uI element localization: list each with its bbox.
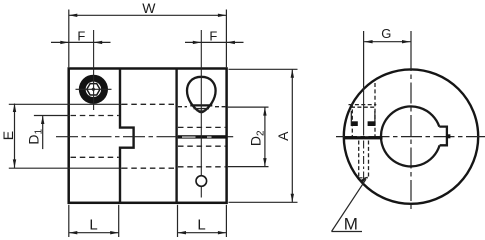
socket head cap screw outer disc: [79, 75, 108, 104]
screw hole hidden wall right: [368, 141, 370, 178]
F left arrow outer-left: [60, 41, 69, 44]
M leader line: [332, 179, 367, 231]
counterbore bottom hidden line 1: [349, 104, 377, 106]
M leader underline: [332, 231, 363, 233]
clamp screw axis inside circle: [363, 89, 365, 136]
right hub counterbore hidden line left segment: [178, 106, 187, 108]
screw head side left: [350, 111, 352, 126]
L right extension line inner: [177, 205, 179, 237]
svg-text:A: A: [275, 131, 291, 141]
A arrow top: [291, 69, 294, 78]
hub boss hidden line bottom (E) dashed part: [122, 167, 175, 169]
clamp slit front view: [344, 136, 382, 139]
teardrop chord (screw head): [190, 104, 212, 106]
M leader arrowhead: [359, 176, 368, 183]
svg-text:G: G: [381, 26, 391, 41]
W dimension line: [69, 14, 227, 16]
L left dimension line: [69, 232, 119, 234]
teardrop inner small line: [197, 110, 207, 112]
svg-text:L: L: [89, 216, 97, 233]
D2 extension line bottom: [228, 166, 269, 168]
vertical centerline right view: [410, 31, 412, 50]
teardrop inner line: [194, 108, 210, 110]
D2 arrow bottom: [263, 158, 266, 167]
screw hole bottom hidden dash: [359, 177, 368, 179]
L right arrow right: [218, 231, 227, 234]
screw hole hidden wall left: [358, 141, 360, 178]
screw hex socket: [87, 84, 100, 95]
F right dimension line: [185, 41, 244, 43]
W extension line right: [225, 10, 227, 68]
L left extension line outer: [68, 205, 70, 237]
F right arrow outer-left: [193, 41, 202, 44]
L left arrow right: [110, 231, 119, 234]
F left arrow outer-right: [94, 41, 103, 44]
L right extension line outer: [225, 205, 227, 237]
clamp slit side view: [178, 135, 227, 138]
svg-text:M: M: [344, 215, 358, 234]
main horizontal centerline: [56, 136, 227, 138]
D2 dimension line: [264, 107, 266, 167]
svg-text:F: F: [209, 28, 217, 43]
F right arrow outer-right: [226, 41, 235, 44]
right hub screw axis line: [200, 30, 202, 198]
horizontal centerline right view: [336, 136, 485, 138]
W arrow right: [218, 14, 227, 17]
counterbore wall hidden right: [374, 83, 376, 136]
bore D1 hidden line bottom: [71, 156, 119, 158]
clamp screw axis upper (G extension): [363, 31, 365, 89]
left hub right edge with jaw step: [120, 69, 134, 203]
screw vertical crosshair / F extension: [93, 30, 95, 110]
A dimension line: [291, 69, 293, 202]
svg-text:W: W: [142, 0, 156, 16]
L right dimension line: [178, 232, 227, 234]
clamp screw axis below slit: [363, 141, 365, 183]
screw socket white circle: [86, 82, 101, 97]
right hub inner hidden line lower: [178, 145, 225, 147]
screw head black right: [368, 121, 375, 126]
wrench access hole: [196, 176, 207, 187]
G arrow right: [402, 40, 411, 43]
right hub left edge: [175, 69, 177, 203]
D1 arrow up: [41, 116, 44, 125]
A extension line bottom: [229, 201, 298, 203]
screw center diamond: [91, 87, 95, 91]
D1 dimension line: [42, 116, 44, 149]
screw head black left: [352, 121, 358, 126]
E arrow top: [13, 104, 16, 113]
D1 extension line: [34, 115, 70, 117]
bore notch outline: [439, 127, 447, 146]
W arrow left: [69, 14, 78, 17]
bore D1 hidden line top: [71, 115, 119, 117]
A arrow bottom: [291, 194, 294, 203]
hub boss hidden line top (E) solid part: [9, 103, 122, 105]
right hub inner hidden line upper: [178, 126, 225, 128]
D2 arrow top: [263, 107, 266, 116]
L right arrow left: [178, 231, 187, 234]
G dimension line: [364, 41, 410, 43]
right hub bore D2 hidden line bottom: [178, 166, 225, 168]
E arrow bottom: [13, 159, 16, 168]
outer circle: [344, 69, 478, 203]
bore circle with notch gap: [381, 106, 440, 166]
slit white dash 2: [207, 137, 212, 138]
G arrow left: [364, 40, 373, 43]
screw horizontal crosshair: [76, 88, 112, 90]
E dimension line: [14, 104, 16, 168]
A extension line top: [229, 68, 298, 70]
D2 extension line top: [228, 106, 269, 108]
L left arrow left: [69, 231, 78, 234]
bore notch black tab: [446, 134, 450, 138]
coupling body outline: [69, 69, 227, 203]
L left extension line inner: [118, 205, 120, 237]
slit white dash 1: [182, 137, 196, 138]
screw head side right: [374, 111, 376, 126]
hub boss hidden line bottom (E) solid part: [9, 167, 122, 169]
counterbore wall hidden left: [351, 103, 353, 136]
clamp screw counterbore teardrop: [187, 77, 216, 112]
svg-text:L: L: [197, 216, 205, 233]
hub boss hidden line top (E) dashed part: [122, 103, 175, 105]
svg-text:F: F: [77, 28, 85, 43]
W extension line left: [68, 10, 70, 68]
counterbore bottom hidden line 2: [351, 106, 375, 108]
F left dimension line: [51, 41, 111, 43]
svg-text:E: E: [0, 131, 16, 140]
right hub counterbore hidden line right segment: [215, 106, 225, 108]
